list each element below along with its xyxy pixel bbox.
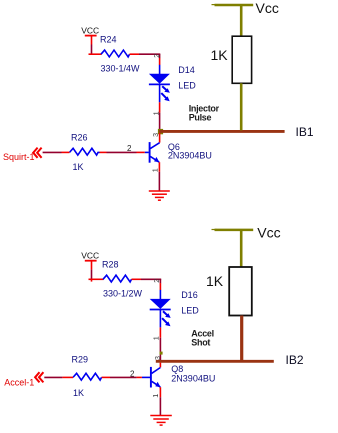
svg-text:Accel-1: Accel-1 [4, 378, 34, 388]
svg-text:LED: LED [178, 80, 196, 90]
bus wire IB2 [156, 360, 274, 363]
svg-text:R29: R29 [72, 354, 89, 364]
svg-text:1K: 1K [211, 47, 229, 63]
svg-text:1K: 1K [73, 162, 84, 172]
svg-text:330-1/2W: 330-1/2W [103, 289, 143, 299]
resistor 1K pull-up (top, box style) [232, 36, 251, 83]
junction dot (olive) on IB1 [158, 129, 163, 134]
svg-text:1: 1 [152, 336, 161, 340]
power symbol Vcc (bottom-right) [212, 230, 254, 268]
wire off-page to R26 [43, 151, 70, 153]
svg-text:3: 3 [153, 356, 162, 360]
power symbol VCC (top-left) [85, 36, 97, 45]
svg-text:1: 1 [151, 394, 160, 398]
wire VCC to R28 [89, 270, 104, 282]
wire R24 to LED D14 [130, 54, 161, 65]
wire D14 to bus junction [159, 102, 161, 130]
svg-text:2: 2 [152, 279, 161, 283]
svg-text:R24: R24 [100, 35, 117, 45]
wire VCC to R24 [89, 45, 102, 55]
wire R28 to LED D16 [132, 279, 162, 290]
svg-text:VCC: VCC [81, 26, 99, 36]
svg-text:2N3904BU: 2N3904BU [171, 373, 215, 383]
LED D16 [150, 290, 171, 328]
svg-text:R28: R28 [102, 260, 119, 270]
text Accel Shot [191, 328, 214, 347]
resistor R29 [73, 373, 102, 380]
wire Q8 emitter to ground [159, 387, 161, 415]
svg-text:D16: D16 [181, 290, 198, 300]
svg-text:1K: 1K [206, 273, 224, 289]
svg-text:Vcc: Vcc [256, 0, 279, 16]
transistor Q6 [145, 142, 160, 163]
svg-text:2N3904BU: 2N3904BU [168, 150, 212, 160]
wire bus to Q8 collector [159, 363, 161, 368]
svg-text:1K: 1K [73, 388, 84, 398]
off-page connector Accel-1 [4, 372, 43, 388]
svg-text:VCC: VCC [81, 251, 99, 261]
resistor R24 [101, 50, 130, 57]
svg-text:Vcc: Vcc [257, 224, 280, 240]
resistor R28 [103, 275, 132, 282]
wire D16 to bus junction [159, 327, 161, 360]
svg-text:R26: R26 [71, 132, 88, 142]
resistor 1K pull-up (bottom, box style) [229, 267, 252, 316]
wire 1K to bus IB2 (brown) [240, 316, 243, 362]
power symbol VCC (bottom-left) [85, 261, 97, 270]
svg-text:IB2: IB2 [286, 353, 304, 367]
svg-text:Pulse: Pulse [189, 113, 212, 123]
svg-text:330-1/4W: 330-1/4W [101, 64, 141, 74]
svg-text:D14: D14 [178, 65, 195, 75]
svg-text:LED: LED [181, 305, 199, 315]
svg-text:2: 2 [152, 54, 161, 58]
wire bus to Q6 collector [159, 133, 161, 143]
wire Q6 emitter to ground [158, 162, 160, 191]
svg-text:Squirt-1: Squirt-1 [3, 152, 35, 162]
transistor Q8 [142, 367, 161, 388]
wire R29 to Q8 base [102, 376, 142, 378]
text Injector Pulse [189, 103, 220, 122]
ground (bottom) [150, 416, 172, 426]
junction dot (olive) above IB2 [160, 352, 163, 355]
svg-text:IB1: IB1 [296, 125, 314, 139]
wire R26 to Q6 base [100, 151, 145, 153]
svg-text:2: 2 [127, 144, 132, 153]
bus wire IB1 [159, 130, 285, 133]
wire 1K to bus IB1 [240, 83, 243, 130]
svg-text:Shot: Shot [191, 338, 210, 348]
LED D14 [149, 65, 170, 103]
wire off-page to R29 [44, 376, 73, 378]
svg-text:1: 1 [150, 168, 159, 172]
resistor R26 [70, 148, 100, 155]
off-page connector Squirt-1 [3, 148, 42, 163]
power symbol Vcc (top-right) [212, 5, 254, 37]
ground (top) [149, 191, 170, 200]
